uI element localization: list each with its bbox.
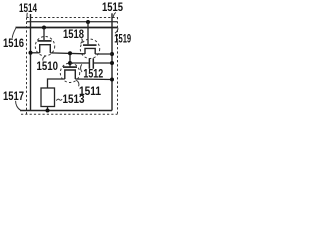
- junction dot EL to bottom rail: [46, 109, 50, 113]
- svg-text:1516: 1516: [3, 36, 24, 50]
- scan line H2 (1516): [16, 27, 118, 29]
- leader of label 1518: [81, 39, 83, 44]
- leader of label 1514: [26, 13, 28, 17]
- wire T2 right leg to right rail: [95, 53, 112, 55]
- transistor T1 channel: [40, 45, 51, 53]
- EL element box 1513: [41, 88, 55, 107]
- capacitor left wire: [70, 62, 89, 64]
- leader of label 1510: [43, 56, 46, 60]
- scan line H1 (1514): [27, 21, 118, 23]
- transistor T1 dashed circle: [35, 37, 54, 56]
- svg-text:1514: 1514: [19, 1, 37, 15]
- wire EL element to bottom rail: [47, 107, 49, 111]
- junction dot on H2 gate of T1: [42, 26, 46, 30]
- svg-text:1513: 1513: [63, 92, 85, 106]
- wire T3 right leg to right rail: [75, 78, 112, 81]
- capacitor C 1512 plates: [88, 58, 90, 69]
- transistor T2 (1518) gate wire: [87, 22, 89, 44]
- wire T1 right leg to T2 left leg: [50, 52, 85, 55]
- junction dot on H1 gate of T2: [86, 20, 90, 24]
- svg-text:1518: 1518: [63, 27, 84, 41]
- leader of label 1519: [115, 27, 118, 33]
- leader tilde of label 1513: [56, 99, 62, 101]
- transistor T3 channel: [65, 70, 76, 79]
- bottom rail wire (1517): [20, 110, 112, 112]
- leader of label 1515: [113, 13, 115, 17]
- dashed top edge: [27, 17, 118, 19]
- pixel boundary dashed box 1515: [21, 17, 118, 115]
- junction dot at T1-T2 wire: [68, 51, 72, 55]
- leader of label 1511: [76, 80, 79, 86]
- junction dot left rail to T1: [29, 51, 33, 55]
- transistor T3 dashed circle: [60, 63, 79, 82]
- junction dot T2 drain to right rail: [110, 52, 114, 56]
- leader of label 1516: [12, 28, 16, 38]
- transistor T1 (1510) gate wire: [43, 28, 45, 41]
- transistor T2 dashed circle: [80, 39, 99, 58]
- transistor T3 (1511) gate bar: [63, 66, 77, 68]
- svg-text:1517: 1517: [3, 89, 24, 103]
- transistor T1 gate bar: [38, 40, 52, 42]
- wire T3 left leg to EL element: [48, 79, 65, 88]
- junction dot capacitor to right rail: [110, 61, 114, 65]
- dashed bottom edge: [21, 113, 118, 115]
- dashed right edge: [117, 17, 119, 115]
- wire left-rail to T1 left leg: [31, 52, 40, 54]
- dashed left edge: [26, 18, 28, 115]
- junction dot at capacitor node: [68, 61, 72, 65]
- transistor T2 gate bar: [83, 44, 97, 46]
- leader of label 1512: [81, 64, 82, 72]
- left rail wire (data line): [30, 14, 32, 111]
- leader of label 1517: [16, 101, 21, 110]
- svg-text:1515: 1515: [102, 0, 123, 14]
- junction dot T3 to right rail: [110, 78, 114, 82]
- capacitor right wire: [93, 62, 112, 64]
- node wire down to T3 gate: [69, 53, 71, 67]
- svg-text:1510: 1510: [37, 59, 59, 73]
- svg-text:1519: 1519: [114, 32, 131, 46]
- right rail wire (power line 1519): [111, 13, 113, 110]
- transistor T2 channel: [85, 48, 95, 54]
- svg-text:1512: 1512: [83, 67, 103, 81]
